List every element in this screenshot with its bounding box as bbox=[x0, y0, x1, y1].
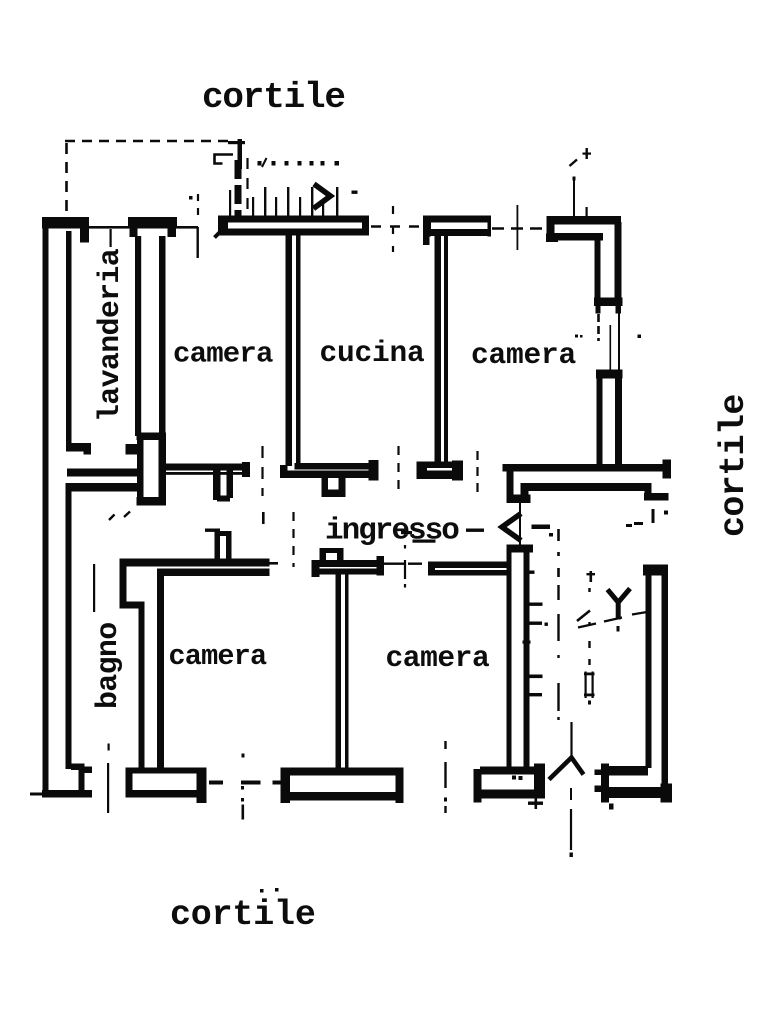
wall camera-cucina partition right face bbox=[296, 235, 301, 466]
svg-text:camera: camera bbox=[173, 338, 273, 371]
node plus mark bbox=[586, 148, 588, 159]
wire thin door line x520 bbox=[519, 503, 521, 552]
window right dashed line bbox=[597, 314, 600, 341]
wall tee piece lower bar bbox=[320, 569, 382, 575]
wall right outer face mid bbox=[615, 378, 622, 466]
wire dashed courtyard outline left bbox=[65, 143, 68, 213]
wall camera-br left face bbox=[507, 552, 512, 772]
wire dash-dot x558 lower bbox=[557, 585, 559, 720]
window right thin line bbox=[618, 306, 620, 373]
wall door jamb box camera bbox=[417, 462, 463, 469]
wall bagno-camera right face bbox=[157, 569, 164, 771]
wall tee piece upper bar bbox=[312, 560, 384, 567]
node dots on D bbox=[512, 776, 516, 780]
window box bracket top bbox=[215, 155, 234, 164]
wire dotted centerline x242 bbox=[242, 754, 245, 758]
wall jamb stub left of pillar bbox=[126, 444, 139, 455]
wall pillar crossbar bbox=[137, 433, 167, 441]
wall camera-bb partition left face bbox=[336, 573, 342, 770]
wall inner left face upper bbox=[66, 231, 72, 444]
wire thin vline above camera bbox=[573, 180, 575, 218]
window corner tee bbox=[228, 141, 245, 144]
wall cucina bottom upper bar bbox=[295, 463, 375, 470]
wire dash-dot x589 bbox=[588, 588, 590, 665]
window diag tick bbox=[262, 158, 267, 167]
arrow chevron entry bbox=[314, 184, 331, 209]
wire tick below D bbox=[528, 802, 543, 805]
window bold dashed mullion bbox=[235, 160, 242, 217]
wall corridor lower bar left bbox=[67, 483, 143, 492]
wall camera-bl left vertical bbox=[120, 559, 127, 608]
wire thin tick lavanderia bbox=[110, 229, 112, 247]
wire dash-dot door x398 bbox=[397, 446, 399, 495]
wall camera-br right cap bbox=[643, 565, 668, 576]
symbol tee mark x590 bbox=[590, 571, 593, 582]
wall corridor right bar upper bbox=[428, 562, 509, 569]
wire jamb tick x263 bbox=[262, 512, 265, 524]
wall ingresso inner bar right vertical bbox=[645, 483, 652, 501]
wall corridor right bar lower bbox=[434, 570, 509, 576]
wall ingresso top outer bar bbox=[503, 464, 667, 472]
stair tread ticks bbox=[529, 571, 535, 574]
wire thin bagno door line bbox=[93, 564, 95, 612]
wire dashed centerline below door bbox=[570, 788, 572, 800]
wall tee piece right cap bbox=[377, 556, 385, 576]
wire thin ext right bbox=[269, 562, 278, 565]
wire thin connector dashes y564 bbox=[384, 563, 405, 565]
node diag mark bbox=[570, 160, 578, 167]
wall right outer face upper bbox=[615, 222, 622, 302]
arrow chevron dash bbox=[352, 191, 358, 194]
wall tee piece left tip bbox=[312, 560, 320, 577]
wall camera-bl top lower bar bbox=[157, 569, 270, 577]
wall lavanderia door jamb tick bbox=[66, 443, 91, 452]
arrow door swing Y bbox=[608, 589, 631, 620]
wire thin door line bagno-court bbox=[107, 763, 109, 813]
wall segment C bottom (camera-bl) bbox=[281, 768, 403, 776]
wire dash-dot vertical x393 bbox=[392, 206, 394, 252]
wall camera-right top outer bbox=[547, 216, 622, 225]
wall top-left cap bbox=[42, 217, 89, 229]
wall camera-bl top upper bar bbox=[120, 559, 270, 567]
svg-text:camera: camera bbox=[471, 338, 576, 372]
window thin dashed mullion bbox=[246, 158, 248, 217]
wall cucina top right cap bbox=[362, 216, 369, 236]
wall ingresso jog foot bbox=[507, 495, 531, 504]
wall camera top cap outer edge bbox=[423, 216, 491, 223]
wall outer left bbox=[43, 217, 49, 797]
svg-text:ingresso: ingresso bbox=[325, 514, 459, 549]
wall right window crossbar2 bbox=[596, 370, 623, 379]
node dot below E bbox=[609, 804, 614, 810]
wall corridor right bar left cap bbox=[428, 562, 435, 576]
wall bottom outer bar left corner bbox=[42, 790, 92, 798]
wall camera cap hook bbox=[423, 236, 430, 245]
wire thin sill lavanderia right bbox=[176, 226, 198, 229]
wall inner left face lower bbox=[66, 483, 72, 769]
wall camera-br left wall cap bbox=[507, 545, 534, 553]
wire thin sill left bbox=[88, 226, 129, 229]
wall cucina top outer edge bbox=[218, 216, 369, 223]
window hatch ticks bbox=[229, 190, 231, 217]
wire diag tick bbox=[577, 611, 590, 622]
wire dash-dot door x262 bbox=[261, 446, 263, 496]
wire dashed courtyard outline top bbox=[65, 140, 232, 143]
node dot bbox=[189, 196, 193, 200]
wire dash-dot x558 upper bbox=[557, 529, 560, 541]
wall cucina bottom left tip bbox=[280, 465, 288, 478]
wall bagno-camera left face bbox=[139, 602, 145, 770]
wall right inner face mid bbox=[597, 378, 603, 466]
wire dash stub above bbox=[197, 194, 199, 222]
wall cucina bottom lower bar bbox=[280, 471, 375, 479]
wire dash-dot door x477 bbox=[476, 451, 478, 493]
wall ingresso inner bar bbox=[521, 483, 649, 491]
svg-text:cortile: cortile bbox=[714, 394, 754, 537]
wall inner-left jog bottom bbox=[71, 764, 85, 771]
wire tick crossing wall x586 bbox=[586, 207, 588, 219]
svg-text:camera: camera bbox=[386, 641, 490, 675]
wall cucina cap tick bbox=[215, 228, 225, 238]
wall cucina top inner edge bbox=[221, 229, 369, 236]
wall camera top cap left end bbox=[423, 216, 431, 237]
node dot right bbox=[664, 511, 668, 515]
wire corridor axis dashes bbox=[205, 529, 220, 532]
wall corridor upper bar left bbox=[67, 469, 143, 477]
wall hanging jamb faces bbox=[213, 470, 221, 500]
wire dash window camera top bbox=[492, 227, 546, 230]
wall corridor upper bar right arm bbox=[165, 464, 250, 471]
wall camera-cucina partition left face bbox=[286, 235, 293, 466]
node dots beside window bbox=[575, 335, 578, 338]
node dots above cortile bbox=[260, 889, 264, 893]
wire dashed diagonal stair bbox=[578, 612, 650, 628]
wall right outer face lower bbox=[646, 575, 652, 768]
wall ingresso jog vertical bbox=[507, 470, 514, 498]
wire thin window centerline x517 bbox=[517, 205, 519, 250]
wire dash-dot x405 bbox=[404, 545, 406, 588]
wall segment D bottom (camera-br left) bbox=[480, 767, 544, 775]
wall ingresso inner bar left vertical bbox=[521, 483, 529, 503]
node diag marks left bbox=[109, 515, 115, 521]
wall camera-right top left hook bbox=[547, 216, 555, 236]
svg-text:cortile: cortile bbox=[170, 895, 316, 935]
window dot row bbox=[258, 161, 262, 166]
wire dash-dot x445 bbox=[444, 741, 446, 813]
wall tee piece stub bbox=[320, 548, 344, 553]
svg-text:lavanderia: lavanderia bbox=[94, 248, 128, 422]
window right thin center line bbox=[610, 325, 612, 373]
svg-text:cucina: cucina bbox=[320, 336, 425, 370]
wall ingresso right foot bbox=[644, 493, 669, 501]
wall camera top cap right end bbox=[488, 216, 492, 237]
wall camera-br right face bbox=[524, 552, 530, 770]
wall camera-bl left foot bbox=[120, 602, 145, 609]
wall ingresso outer bar right cap bbox=[663, 460, 672, 479]
wire corridor bar lower edge bbox=[166, 472, 249, 475]
wire ticks left of E bbox=[595, 770, 604, 776]
wall cucina bottom right cap bbox=[369, 460, 379, 481]
wire thin stub bbox=[197, 227, 199, 258]
wire dash-dot gap cucina-camera bbox=[371, 225, 423, 227]
wire dashes door bottom1 bbox=[241, 781, 261, 785]
svg-text:cortile: cortile bbox=[202, 77, 345, 118]
wall segment B bottom (bagno/camera) bbox=[126, 768, 207, 774]
arrow ingresso shaft dash bbox=[532, 525, 551, 530]
wall cucina-camera partition right face bbox=[444, 236, 448, 464]
wall lavanderia-camera left face bbox=[135, 236, 141, 436]
wall cucina top left cap bbox=[218, 216, 228, 236]
wire dash-dot door x293 bbox=[292, 512, 294, 567]
wall right inner face upper bbox=[595, 238, 601, 302]
symbol radiator H bbox=[585, 672, 587, 699]
wire tick right of B bbox=[209, 781, 223, 785]
wall lavanderia-camera right face bbox=[159, 236, 166, 436]
wall right window crossbar1 bbox=[594, 298, 623, 307]
wire dashes near right jamb bbox=[626, 524, 632, 527]
wall cucina-camera partition left face bbox=[435, 236, 442, 464]
svg-text:bagno: bagno bbox=[92, 622, 126, 709]
wall jamb stub camera-bl door bbox=[215, 531, 232, 536]
wall pillar faces bbox=[137, 438, 144, 500]
wall pillar foot bbox=[137, 497, 167, 506]
arrow ingresso head bbox=[502, 514, 521, 541]
wall camera top cap inner edge bbox=[423, 229, 491, 236]
wire thin tick bottom-left bbox=[30, 793, 42, 796]
wall camera-bb partition right face bbox=[345, 573, 349, 770]
arrow door swing lambda bbox=[570, 722, 572, 757]
wall segment E bottom (stair right) bbox=[606, 766, 649, 776]
wall corridor bar end cap bbox=[242, 462, 250, 477]
wall cucina pocket below bbox=[322, 477, 329, 497]
wall camera-right top inner edge bbox=[550, 233, 603, 241]
wall lavanderia cap bbox=[128, 217, 177, 229]
svg-text:camera: camera bbox=[169, 640, 268, 673]
